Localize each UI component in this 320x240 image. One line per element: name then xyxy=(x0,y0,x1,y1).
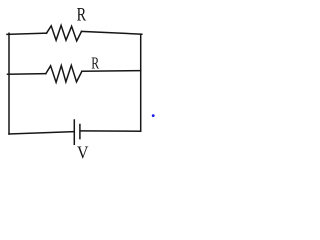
stray blue dot xyxy=(152,114,155,117)
resistor R2 xyxy=(46,65,82,82)
battery V long plate xyxy=(73,120,75,144)
svg-text:R: R xyxy=(91,55,99,73)
battery V short plate xyxy=(79,125,81,139)
wire bottom-left segment xyxy=(9,132,74,134)
wire middle-right segment xyxy=(82,70,141,73)
svg-text:V: V xyxy=(77,143,89,163)
wire bottom-right segment xyxy=(81,130,141,132)
wire middle-left segment xyxy=(8,73,46,76)
wire top-right segment xyxy=(82,31,142,34)
wire top-left segment xyxy=(7,33,47,34)
svg-text:R: R xyxy=(77,4,87,25)
wire right vertical xyxy=(140,34,142,131)
resistor R1 xyxy=(47,25,82,41)
wire left vertical xyxy=(8,33,10,134)
